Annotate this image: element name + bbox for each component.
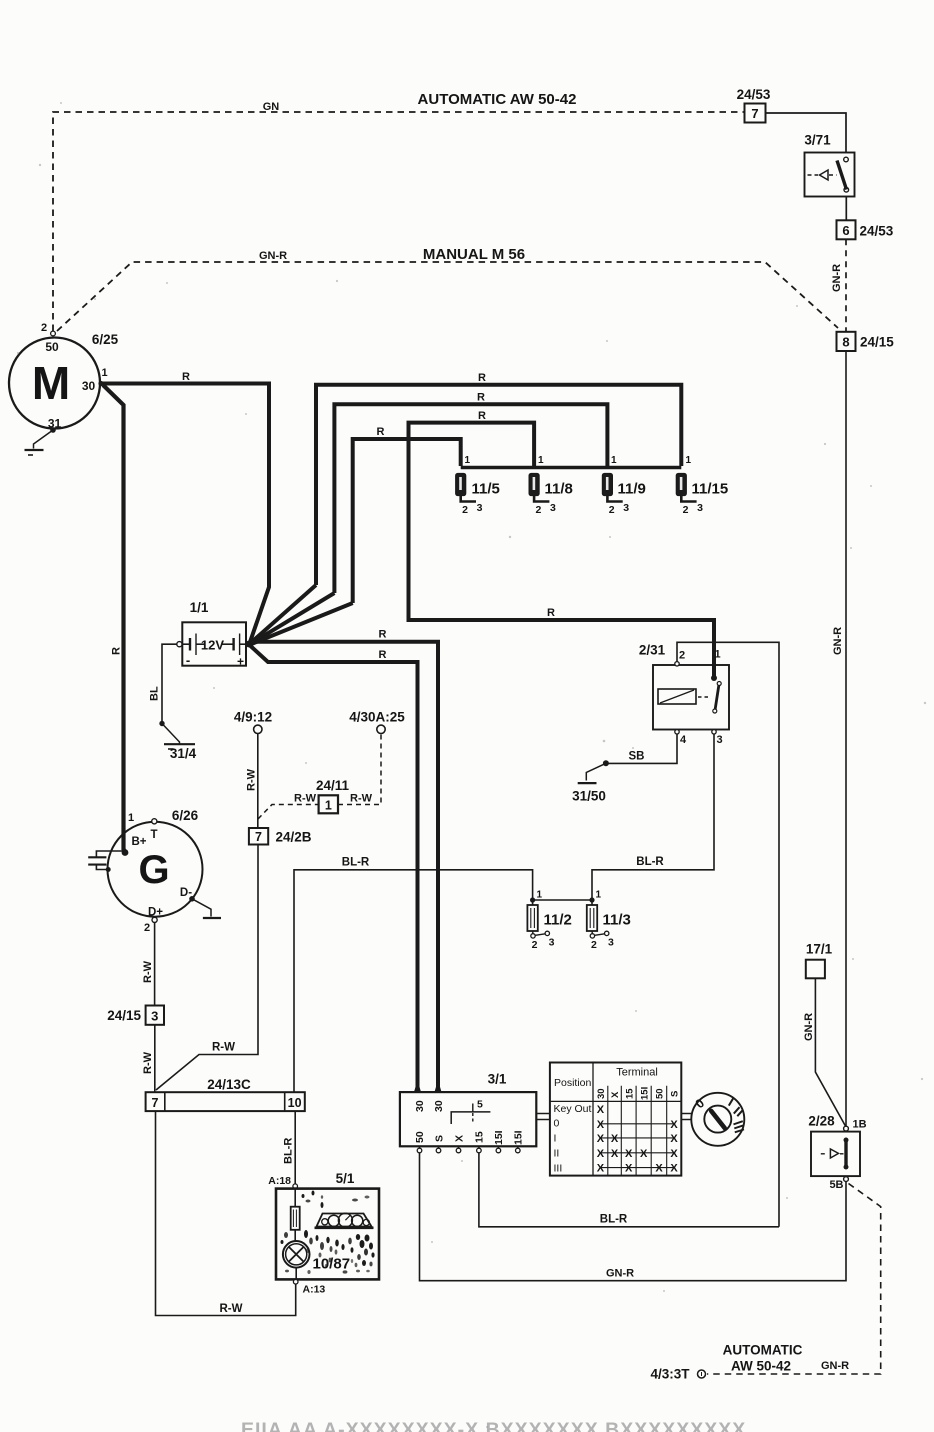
- svg-text:X: X: [670, 1163, 678, 1175]
- svg-text:24/15: 24/15: [860, 335, 894, 350]
- svg-text:R: R: [379, 629, 387, 641]
- svg-text:BL-R: BL-R: [283, 1138, 295, 1164]
- svg-text:GN-R: GN-R: [832, 627, 844, 655]
- svg-text:11/5: 11/5: [472, 481, 500, 498]
- svg-text:X: X: [597, 1148, 605, 1160]
- svg-text:3: 3: [550, 502, 556, 514]
- fuse 11/5: [456, 474, 466, 496]
- wire A:13: [293, 1280, 298, 1285]
- svg-text:15: 15: [474, 1131, 486, 1143]
- svg-text:GN-R: GN-R: [831, 264, 843, 292]
- svg-text:2: 2: [609, 504, 615, 516]
- fuse 11/3: [591, 900, 593, 905]
- svg-text:7: 7: [255, 830, 262, 844]
- svg-text:11/2: 11/2: [544, 912, 572, 929]
- svg-text:30: 30: [596, 1088, 607, 1099]
- svg-text:8: 8: [842, 335, 849, 350]
- svg-text:T: T: [150, 829, 157, 841]
- wire R battery to fuse 11/5: [353, 439, 461, 603]
- svg-text:50: 50: [414, 1131, 426, 1143]
- svg-text:2/31: 2/31: [639, 643, 666, 658]
- svg-text:GN-R: GN-R: [259, 250, 287, 262]
- svg-text:B+: B+: [131, 836, 146, 848]
- svg-text:1: 1: [611, 455, 617, 466]
- wire R-W 4/9:12 to 24/2B:7: [257, 734, 259, 828]
- svg-text:GN-R: GN-R: [606, 1268, 634, 1280]
- fuse 11/9: [602, 474, 612, 496]
- connector 24/15 pin 3: [146, 1006, 164, 1025]
- ground 31/4: [162, 724, 180, 744]
- wire link fuse 11/2 terminal 1 to 11/3 terminal 1: [533, 899, 592, 901]
- svg-text:12V: 12V: [201, 638, 224, 653]
- svg-text:5/1: 5/1: [336, 1171, 355, 1186]
- svg-text:3: 3: [623, 502, 629, 514]
- svg-text:2: 2: [462, 504, 468, 516]
- svg-text:3: 3: [608, 937, 614, 949]
- svg-text:AW 50-42: AW 50-42: [731, 1359, 791, 1374]
- svg-text:R-W: R-W: [142, 1051, 154, 1074]
- wire R battery to fuse 11/9: [334, 404, 607, 593]
- wire SB relay 2/31:4 to ground 31/50: [606, 734, 677, 763]
- alternator B+ junction: [122, 849, 129, 856]
- svg-text:MANUAL M 56: MANUAL M 56: [423, 246, 525, 263]
- svg-text:BL-R: BL-R: [600, 1214, 628, 1226]
- ground 31/50: [586, 763, 606, 780]
- wire GN-R dashed MANUAL M56 from starter terminal 2 to connector 24/15:8: [57, 262, 838, 331]
- svg-text:SB: SB: [629, 751, 645, 763]
- svg-text:1: 1: [128, 812, 134, 824]
- svg-text:Position: Position: [554, 1077, 592, 1089]
- wire GN-R dashed 2/28 5B to 4/3:3T: [707, 1184, 881, 1375]
- wire R battery to fuse 11/15: [316, 385, 681, 585]
- svg-text:X: X: [655, 1163, 663, 1175]
- svg-text:15I: 15I: [513, 1130, 525, 1145]
- fuse bus terminal 1 row: [461, 466, 682, 470]
- svg-text:R: R: [478, 410, 486, 422]
- svg-text:R: R: [478, 372, 486, 384]
- svg-text:3/1: 3/1: [488, 1072, 507, 1087]
- svg-text:4/3:3T: 4/3:3T: [650, 1367, 690, 1382]
- svg-text:2: 2: [532, 939, 538, 951]
- position table: [550, 1063, 681, 1176]
- svg-text:R: R: [377, 426, 385, 438]
- svg-text:A:13: A:13: [303, 1284, 326, 1296]
- svg-text:31/4: 31/4: [170, 746, 197, 761]
- fuse 11/8: [529, 474, 539, 496]
- wire R-W dashed to 24/11: [258, 805, 319, 820]
- fuse inside 5/1: [291, 1207, 300, 1230]
- starter motor 6/25: [9, 338, 100, 429]
- node 5B: [844, 1177, 849, 1182]
- svg-text:24/2B: 24/2B: [276, 830, 312, 845]
- svg-text:R-W: R-W: [246, 768, 258, 791]
- svg-text:BL-R: BL-R: [636, 856, 664, 868]
- svg-text:11/15: 11/15: [692, 481, 729, 498]
- svg-text:+: +: [237, 655, 244, 669]
- svg-text:24/11: 24/11: [316, 778, 350, 793]
- wire BL-R ignition 15 to relay line: [479, 1153, 779, 1227]
- svg-text:D-: D-: [180, 887, 192, 899]
- svg-text:S: S: [670, 1091, 681, 1097]
- svg-text:11/8: 11/8: [545, 481, 573, 498]
- svg-text:R: R: [547, 607, 555, 619]
- wire R-W 24/15:3 to connector 24/13C:7: [154, 1025, 156, 1092]
- svg-text:R-W: R-W: [142, 960, 154, 983]
- svg-text:4/9:12: 4/9:12: [234, 710, 272, 725]
- connector 24/15 pin 8: [837, 332, 856, 351]
- svg-text:X: X: [670, 1119, 678, 1131]
- alternator D- to ground: [189, 896, 195, 902]
- svg-text:5: 5: [477, 1099, 483, 1111]
- wire GN-R main right vertical from 24/15:8 to 2/28 1B: [845, 351, 847, 1129]
- wire R battery to fuse 11/8 and relay 2/31 terminal 1: [409, 423, 715, 678]
- svg-text:1: 1: [325, 799, 332, 813]
- svg-text:30: 30: [433, 1100, 445, 1112]
- svg-text:X: X: [597, 1104, 605, 1116]
- svg-text:G: G: [138, 848, 169, 892]
- node 4/30A:25: [377, 725, 385, 733]
- wire R battery positive to ignition 3/1 terminal 30 (left): [250, 646, 418, 1093]
- ignition key symbol: [691, 1093, 744, 1146]
- svg-text:AUTOMATIC: AUTOMATIC: [723, 1343, 803, 1358]
- fuse 11/2: [532, 900, 534, 905]
- svg-text:3/71: 3/71: [804, 133, 831, 148]
- svg-text:X: X: [670, 1133, 678, 1145]
- svg-text:7: 7: [152, 1096, 159, 1110]
- svg-text:X: X: [610, 1091, 621, 1098]
- svg-text:1: 1: [686, 455, 692, 466]
- svg-text:3: 3: [151, 1008, 158, 1023]
- warning lamp 10/87: [283, 1241, 310, 1268]
- svg-text:X: X: [625, 1163, 633, 1175]
- wire R starter 30 down to alternator B+: [103, 385, 124, 850]
- svg-text:X: X: [453, 1135, 465, 1142]
- wire BL-R fuse 11/2 to connector 24/13C:10: [294, 870, 533, 1092]
- svg-text:1: 1: [538, 455, 544, 466]
- svg-text:2: 2: [591, 939, 597, 951]
- svg-text:X: X: [597, 1119, 605, 1131]
- svg-text:3: 3: [477, 502, 483, 514]
- svg-text:X: X: [625, 1148, 633, 1160]
- svg-text:1B: 1B: [853, 1119, 867, 1131]
- svg-text:S: S: [433, 1135, 445, 1142]
- svg-text:A:18: A:18: [268, 1175, 291, 1187]
- svg-text:24/53: 24/53: [860, 223, 894, 238]
- svg-text:R-W: R-W: [350, 793, 373, 805]
- svg-text:1: 1: [714, 649, 720, 661]
- ignition bottom terminals: [420, 1146, 518, 1148]
- node 4/3:3T: [698, 1370, 706, 1378]
- svg-text:BL-R: BL-R: [342, 857, 370, 869]
- svg-text:31/50: 31/50: [572, 789, 606, 804]
- svg-text:2: 2: [683, 504, 689, 516]
- svg-text:-: -: [186, 653, 190, 668]
- wire relay 2/31:2 up over and down right to BL-R: [677, 642, 779, 1227]
- svg-text:X: X: [640, 1148, 648, 1160]
- svg-text:17/1: 17/1: [806, 942, 833, 957]
- svg-text:R: R: [182, 371, 190, 383]
- svg-text:6/26: 6/26: [172, 808, 199, 823]
- svg-text:R-W: R-W: [212, 1042, 235, 1054]
- svg-text:0: 0: [554, 1118, 560, 1130]
- svg-text:II: II: [554, 1148, 560, 1160]
- svg-text:10/87: 10/87: [313, 1256, 351, 1273]
- connector 24/2B pin 7: [249, 828, 268, 845]
- svg-text:III: III: [554, 1163, 563, 1175]
- wire from 24/53:7 to switch 3/71: [766, 113, 847, 153]
- svg-text:D+: D+: [148, 907, 163, 919]
- svg-text:1: 1: [537, 890, 543, 901]
- wire BL-R connector 24/13C:10 to 5/1 A:18: [294, 1111, 296, 1184]
- relay coil: [658, 689, 696, 704]
- scan speckle inside 5/1: [281, 1191, 375, 1275]
- svg-text:GN-R: GN-R: [803, 1013, 815, 1041]
- wire R battery positive to ignition 3/1 terminal 30 (right): [250, 642, 438, 1092]
- svg-text:2: 2: [679, 650, 685, 662]
- svg-text:24/53: 24/53: [737, 87, 771, 102]
- svg-text:R-W: R-W: [220, 1303, 243, 1315]
- wire R-W alternator D+ to 24/15:3: [154, 923, 156, 1006]
- svg-text:X: X: [597, 1163, 605, 1175]
- svg-text:R: R: [111, 647, 123, 655]
- wire GN dashed from starter terminal 2 to connector 24/53:7: [53, 112, 745, 331]
- svg-text:I: I: [554, 1133, 557, 1145]
- svg-text:6/25: 6/25: [92, 332, 119, 347]
- svg-text:11/3: 11/3: [603, 912, 631, 929]
- svg-text:50: 50: [655, 1088, 666, 1099]
- svg-text:X: X: [597, 1133, 605, 1145]
- starter terminal 30 junction: [98, 381, 103, 386]
- relay terminals 4 and 3: [675, 730, 679, 734]
- ignition internal contact 15: [451, 1112, 490, 1124]
- svg-text:1/1: 1/1: [190, 600, 209, 615]
- svg-text:2: 2: [535, 504, 541, 516]
- svg-text:11/9: 11/9: [618, 481, 646, 498]
- svg-text:50: 50: [45, 340, 59, 354]
- svg-text:30: 30: [82, 379, 96, 393]
- svg-text:5B: 5B: [829, 1179, 843, 1191]
- svg-text:X: X: [611, 1148, 619, 1160]
- svg-text:EIIA AA A-XXXXXXXX-X BXXXXX: EIIA AA A-XXXXXXXX-X BXXXXXXX BXXXXXXXXX: [241, 1419, 746, 1432]
- svg-text:30: 30: [414, 1100, 426, 1112]
- node 1B: [844, 1126, 849, 1131]
- svg-text:3: 3: [697, 502, 703, 514]
- alternator 6/26: [108, 822, 203, 917]
- svg-text:AUTOMATIC AW 50-42: AUTOMATIC AW 50-42: [418, 91, 577, 108]
- svg-text:6: 6: [842, 223, 849, 238]
- svg-text:15: 15: [624, 1088, 635, 1099]
- svg-text:3: 3: [549, 937, 555, 949]
- wire GN-R dashed 24/53:6 to 24/15:8: [845, 239, 847, 331]
- cluster gauge icon inside 5/1: [317, 1214, 372, 1227]
- svg-text:7: 7: [751, 106, 758, 121]
- mechanical link table to key: [681, 1114, 691, 1120]
- wire R-W dashed 24/11 to 4/30A:25: [338, 734, 381, 805]
- connector 24/53 pin 6: [837, 220, 856, 239]
- svg-text:Key Out: Key Out: [554, 1103, 592, 1115]
- wire R-W 5/1 A:13 back to connector 24/13C:7: [156, 1111, 296, 1315]
- svg-text:Terminal: Terminal: [616, 1067, 658, 1079]
- wire 3/71 to 24/53:6: [845, 197, 847, 221]
- svg-text:10: 10: [288, 1096, 302, 1110]
- wire R-W from 24/2B:7 to connector 24/13C:7: [156, 845, 258, 1091]
- svg-text:BL: BL: [149, 686, 161, 701]
- wire R starter 30 to battery positive: [101, 384, 269, 644]
- svg-text:R: R: [477, 392, 485, 404]
- svg-text:1: 1: [465, 455, 471, 466]
- svg-text:1: 1: [596, 890, 602, 901]
- fuse 11/15: [676, 474, 686, 496]
- wire BL battery negative to ground 31/4: [162, 644, 177, 723]
- svg-text:X: X: [670, 1148, 678, 1160]
- wire BL-R relay 2/31:3 down to fuse 11/3: [592, 734, 714, 900]
- svg-text:GN-R: GN-R: [821, 1360, 849, 1372]
- svg-text:24/13C: 24/13C: [207, 1077, 251, 1092]
- svg-text:24/15: 24/15: [107, 1008, 141, 1023]
- relay switch blade: [717, 682, 721, 686]
- starter terminal 2 marker: [51, 331, 56, 336]
- svg-text:4/30A:25: 4/30A:25: [349, 710, 405, 725]
- mechanical link switch to table: [536, 1114, 550, 1120]
- svg-text:4: 4: [680, 734, 687, 746]
- svg-text:3: 3: [716, 734, 722, 746]
- wire GN-R 17/1 to 2/28 1B: [815, 978, 846, 1127]
- svg-text:2: 2: [41, 322, 47, 334]
- svg-text:2: 2: [144, 922, 150, 934]
- svg-text:R: R: [379, 649, 387, 661]
- starter ground 31: [50, 427, 56, 433]
- svg-text:15I: 15I: [493, 1130, 505, 1145]
- svg-text:X: X: [611, 1133, 619, 1145]
- wire GN-R ignition 50 to 2/28 5B: [420, 1153, 847, 1281]
- svg-text:GN: GN: [263, 101, 280, 113]
- svg-text:1: 1: [101, 367, 107, 379]
- svg-text:15I: 15I: [639, 1087, 650, 1100]
- svg-text:2/28: 2/28: [808, 1114, 835, 1129]
- capacitor suppressor at alternator: [96, 851, 125, 857]
- svg-text:R-W: R-W: [294, 793, 317, 805]
- svg-text:M: M: [32, 357, 70, 409]
